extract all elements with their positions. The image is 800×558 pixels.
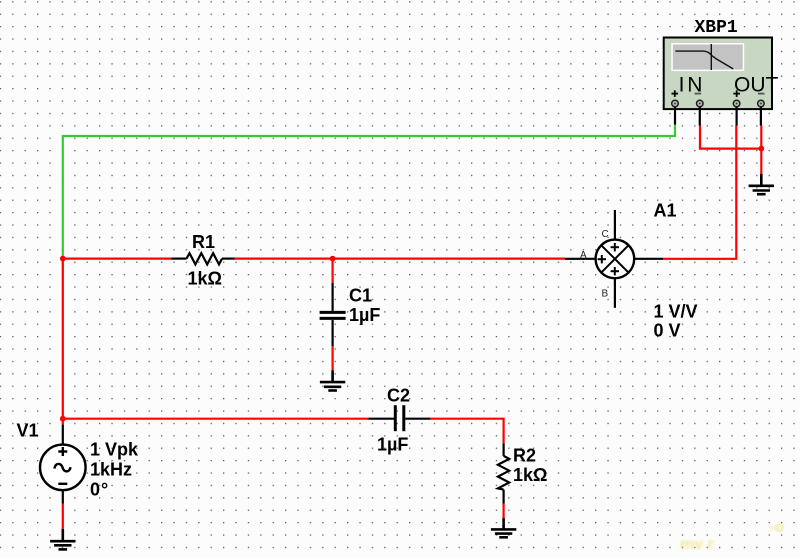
wire red A1 output to OUT+ <box>663 126 736 259</box>
wire red bottom net left segment <box>63 418 369 420</box>
ground under C1 <box>320 371 345 391</box>
svg-text:1µF: 1µF <box>377 435 408 455</box>
svg-text:A1: A1 <box>654 200 677 220</box>
svg-text:IN: IN <box>679 74 706 97</box>
svg-text:0 V: 0 V <box>654 321 681 341</box>
svg-text:-o: -o <box>769 519 784 536</box>
wire red bottom net right segment to R2 <box>430 419 504 444</box>
op-amp summer A1 <box>565 210 663 308</box>
capacitor C1 <box>320 283 346 346</box>
svg-text:1µF: 1µF <box>349 305 380 325</box>
svg-text:OUT: OUT <box>734 74 779 97</box>
wire black pin stub IN+ <box>674 107 676 125</box>
resistor R2 <box>498 443 509 503</box>
wire red C1 bottom to ground <box>332 346 334 371</box>
svg-text:C: C <box>602 229 609 240</box>
terminal OUT+ <box>733 100 740 107</box>
wire red V1 bottom to ground <box>62 504 64 529</box>
svg-text:R1: R1 <box>192 232 215 252</box>
svg-text:1kHz: 1kHz <box>90 460 132 480</box>
node junction bottom left <box>60 416 66 422</box>
wire black pin stub IN- <box>699 107 701 126</box>
resistor R1 <box>172 253 235 264</box>
watermark <box>680 519 784 553</box>
wire black pin stub OUT+ <box>735 107 737 126</box>
wire green IN+ net (Bode input) <box>63 125 675 259</box>
svg-text:XBP1: XBP1 <box>695 18 738 38</box>
source V1 (AC) <box>40 425 86 504</box>
ground under V1 <box>50 529 75 550</box>
wire red C1 top lead <box>332 259 334 283</box>
wire red V1 top lead <box>62 419 64 425</box>
bode curve on screen <box>675 51 733 69</box>
ground under OUT- <box>749 174 774 194</box>
wire black pin stub OUT- <box>760 107 762 126</box>
node junction C1 <box>330 256 336 262</box>
svg-text:1kΩ: 1kΩ <box>513 465 547 485</box>
wire red R2 bottom to ground <box>503 504 505 518</box>
wire red mid net left segment <box>63 258 172 260</box>
svg-text:1 V/V: 1 V/V <box>654 302 698 322</box>
terminal OUT- <box>758 100 765 107</box>
svg-text:mv r: mv r <box>680 536 714 553</box>
svg-text:0°: 0° <box>90 479 109 499</box>
instrument XBP1 Bode plotter <box>664 38 779 110</box>
terminal IN- <box>697 100 704 107</box>
capacitor C2 <box>369 405 431 431</box>
node junction V1/mid <box>60 256 66 262</box>
ground under R2 <box>491 518 516 537</box>
terminal IN+ <box>672 100 679 107</box>
wire red mid net middle segment <box>235 258 566 260</box>
svg-text:V1: V1 <box>17 421 39 441</box>
svg-text:R2: R2 <box>513 445 536 465</box>
svg-text:1kΩ: 1kΩ <box>188 269 222 289</box>
svg-text:1 Vpk: 1 Vpk <box>90 440 139 460</box>
wire red OUT- down to junction and ground <box>760 126 762 175</box>
wire red IN- to OUT- junction <box>700 126 761 149</box>
svg-text:C2: C2 <box>387 386 410 406</box>
node junction OUT- <box>758 146 764 152</box>
terminal plus IN <box>672 90 765 97</box>
svg-text:B: B <box>602 289 609 300</box>
svg-text:C1: C1 <box>349 286 372 306</box>
svg-text:A: A <box>580 250 587 261</box>
wire red left vertical V1 to mid net <box>62 259 64 419</box>
